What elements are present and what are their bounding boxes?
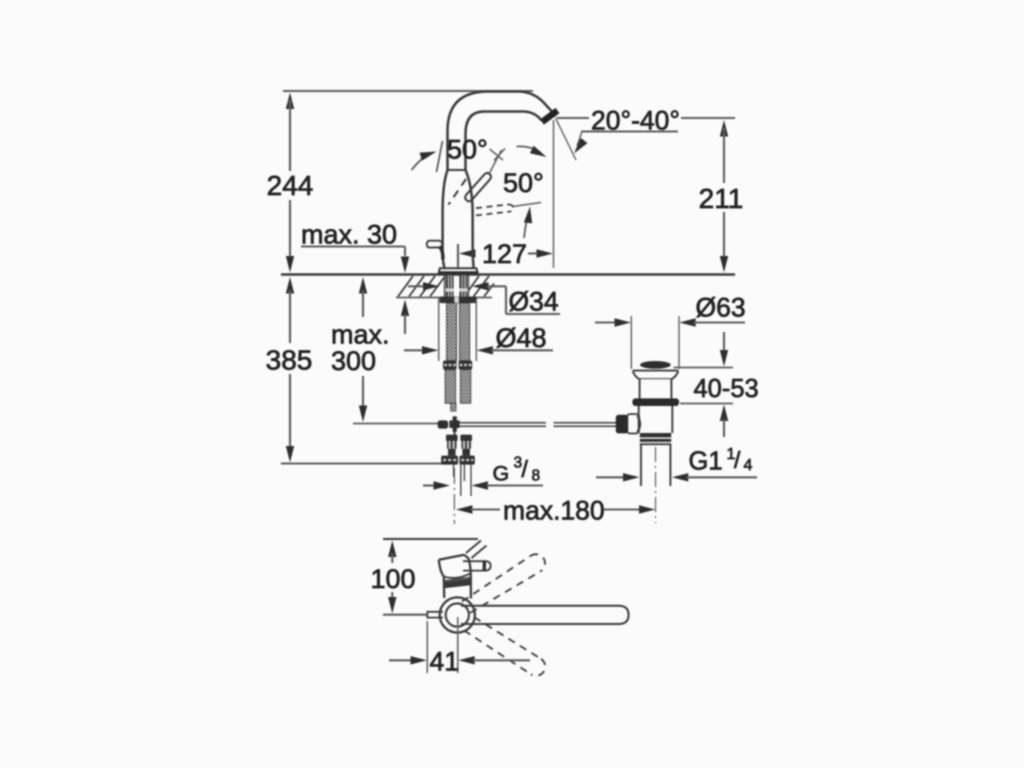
svg-text:Ø48: Ø48 (496, 323, 547, 353)
svg-text:4: 4 (744, 457, 753, 474)
spout break lines (466, 541, 481, 554)
dimension 100 (370, 541, 415, 614)
faucet centerline (453, 468, 455, 524)
svg-text:385: 385 (266, 345, 313, 376)
top reference line (244 top) (283, 90, 533, 92)
svg-text:/: / (734, 447, 741, 473)
dimension 41 extension lines (426, 621, 428, 673)
mounting nut under counter (440, 297, 477, 304)
pop-up pull rod at body rear (427, 241, 443, 248)
svg-text:40-53: 40-53 (694, 375, 759, 403)
body dark band (444, 578, 471, 588)
dimension 40-53 (694, 332, 759, 437)
svg-text:G1: G1 (689, 448, 723, 476)
dimension 40-53 reference lines (674, 367, 734, 369)
bottom reference / centerline (383, 614, 428, 616)
dimension max. 30 (301, 220, 409, 335)
svg-text:max.180: max.180 (503, 496, 605, 526)
svg-text:max.: max. (331, 320, 390, 350)
dashed lever (down position) (449, 179, 467, 205)
svg-text:244: 244 (267, 170, 314, 201)
inner circle (446, 603, 469, 626)
faucet body (tapered) (443, 170, 448, 268)
connection tubes G3/8 (454, 465, 471, 496)
dimension G3/8 (423, 455, 543, 490)
drain lever boss (627, 414, 639, 434)
dashed swing capsule upper (462, 554, 545, 613)
drain neck taper (633, 371, 640, 399)
svg-text:max. 30: max. 30 (301, 220, 397, 250)
hose coupling nuts (443, 361, 472, 370)
dimension 127 (458, 120, 554, 269)
lever handle (up position) (465, 173, 491, 201)
dimension G1 1/4 (596, 446, 757, 482)
svg-text:211: 211 (699, 183, 744, 214)
dimension 385 (266, 277, 442, 464)
counter hatching left (398, 276, 445, 297)
svg-text:50°: 50° (503, 168, 544, 198)
lever axis thin line + end cross (489, 150, 502, 175)
svg-text:/: / (522, 456, 529, 482)
dimension Ø48 extension lines (438, 299, 440, 362)
drain tailpipe (640, 444, 642, 486)
faucet spout outer profile (448, 92, 557, 171)
dashed lever (horizontal position) (476, 204, 513, 215)
drain centerline (655, 447, 657, 523)
body top view outline (439, 555, 465, 560)
dimension 244 (267, 93, 314, 273)
svg-text:G: G (493, 462, 510, 486)
svg-text:8: 8 (532, 468, 541, 485)
dashed swing capsule lower (464, 617, 545, 676)
drain push button dome (640, 361, 671, 369)
right curved arrow (50deg arc) (517, 146, 541, 152)
braided hoses lower section (445, 370, 470, 404)
left hose end fitting (451, 403, 456, 411)
body waist lines (444, 573, 471, 578)
aerator stub (427, 612, 443, 618)
svg-text:41: 41 (430, 647, 459, 677)
svg-text:50°: 50° (447, 135, 488, 165)
drain body below flange (638, 406, 640, 433)
braided hoses upper section (447, 303, 470, 360)
body neck joint (447, 169, 466, 171)
svg-text:Ø34: Ø34 (509, 287, 559, 317)
spout mouth (angled outlet face) (542, 111, 558, 123)
threaded shank walls (444, 276, 446, 297)
dimension max.180 (456, 496, 656, 526)
dimension max. 300 (331, 277, 438, 424)
svg-text:300: 300 (331, 346, 376, 376)
spout tip leader + 20deg-40deg label (556, 106, 736, 161)
dimension 211 (699, 120, 744, 273)
lever top view (463, 561, 491, 570)
drain flange (seal washer) (632, 398, 679, 406)
bent arrow pointing up at dashed lever (524, 213, 529, 238)
front lever capsule (461, 606, 629, 624)
50deg reference tick line (437, 141, 443, 172)
svg-text:100: 100 (370, 564, 415, 594)
drain cup rim (633, 370, 679, 372)
check valves (441, 435, 475, 465)
BOTTOM VIEW: top reference line (383, 538, 478, 540)
dimension Ø34 (408, 282, 560, 316)
base flange (439, 268, 478, 273)
dimension Ø63 extension lines (630, 316, 632, 369)
left curved arrow (50deg arc) (412, 154, 431, 171)
drain locknut (640, 433, 671, 437)
mounting plane line (281, 273, 735, 276)
thin line from dashed lever (513, 203, 541, 207)
svg-text:Ø63: Ø63 (696, 293, 746, 323)
counter hatching right (469, 276, 495, 297)
dimension Ø48 (404, 323, 553, 355)
dimension 41 (389, 647, 530, 677)
dimension Ø63 (595, 293, 746, 327)
drain lever knob (616, 415, 628, 434)
svg-text:127: 127 (482, 239, 527, 269)
pop-up rod horizontal (438, 416, 618, 436)
faucet spout inner profile (466, 112, 542, 171)
counter bottom line (396, 297, 492, 299)
escutcheon circle (440, 597, 475, 632)
threaded studs (446, 276, 467, 298)
